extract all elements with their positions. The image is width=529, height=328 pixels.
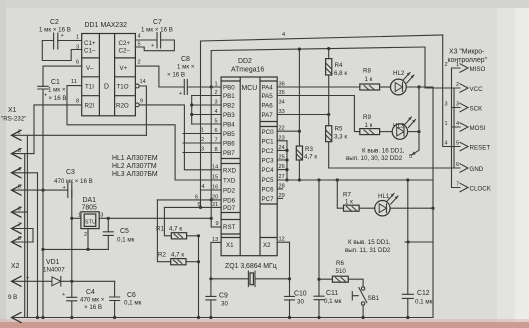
wire X1 pin13: [211, 242, 221, 278]
svg-text:К выв. 16 DD1,: К выв. 16 DD1,: [362, 148, 405, 155]
svg-text:× 16 В: × 16 В: [49, 95, 67, 102]
svg-text:К выв. 15 DD1,: К выв. 15 DD1,: [348, 239, 391, 246]
R7 drop wire: [337, 180, 343, 208]
connector X3 pin 6 GND: [456, 162, 484, 173]
svg-text:C1+: C1+: [84, 40, 96, 47]
connector X1 pin 3: [12, 148, 35, 159]
wire C1 down to ground: [42, 89, 44, 318]
svg-text:DD2: DD2: [238, 58, 252, 65]
svg-text:DA1: DA1: [83, 197, 97, 204]
svg-text:PC5: PC5: [262, 177, 275, 184]
svg-text:PD2: PD2: [223, 188, 236, 195]
svg-text:7805: 7805: [82, 205, 97, 212]
svg-text:2: 2: [84, 232, 87, 238]
svg-text:C2: C2: [50, 19, 59, 26]
svg-text:R2O: R2O: [116, 103, 129, 110]
LED HL3: [380, 117, 416, 139]
svg-text:R3: R3: [305, 146, 313, 153]
PD2 stub net 4: [201, 189, 222, 191]
wire PC5 net to R6: [319, 180, 332, 279]
X3 bus verticals: [452, 68, 455, 188]
svg-text:X2: X2: [11, 263, 20, 270]
PC0 wire: [277, 130, 299, 132]
LED HL1: [359, 193, 398, 216]
svg-text:PB3: PB3: [223, 112, 235, 119]
resistor R1: [156, 207, 199, 239]
svg-text:R8: R8: [363, 68, 371, 75]
svg-text:HL2: HL2: [393, 70, 405, 77]
+5V arrow net: [412, 87, 420, 155]
svg-text:30: 30: [221, 301, 228, 308]
svg-text:CLOCK: CLOCK: [470, 186, 492, 193]
resistor R2: [157, 200, 198, 265]
PD6 wire: [157, 199, 221, 201]
svg-text:C12: C12: [417, 290, 430, 297]
capacitor C12: [402, 180, 432, 318]
svg-text:"RS-232": "RS-232": [1, 116, 26, 123]
connector X1 pin 6: [12, 206, 28, 217]
svg-text:C2+: C2+: [119, 40, 131, 47]
svg-text:PB7: PB7: [223, 150, 235, 157]
HL type list: [112, 155, 158, 178]
connector X3 pin 7 CLOCK: [456, 182, 492, 193]
svg-text:1: 1: [456, 62, 459, 68]
svg-text:14: 14: [140, 79, 146, 85]
svg-text:3: 3: [445, 102, 448, 108]
svg-text:+: +: [26, 275, 29, 281]
crystal ZQ1: [211, 263, 290, 287]
net 4 vertical and top wire: [201, 35, 443, 207]
wire R2I to X1 pin3: [34, 105, 82, 154]
PC5 net wire: [277, 179, 433, 181]
svg-text:9 В: 9 В: [8, 294, 17, 301]
svg-text:4,7 к: 4,7 к: [169, 226, 182, 233]
capacitor C10: [285, 279, 307, 318]
svg-text:4: 4: [282, 32, 285, 38]
svg-text:4,7 к: 4,7 к: [304, 154, 317, 161]
svg-text:+: +: [63, 185, 66, 191]
svg-text:+: +: [151, 43, 154, 49]
svg-text:3,3 к: 3,3 к: [334, 134, 347, 141]
GND vertical right: [432, 87, 434, 318]
node C8/+5: [210, 85, 213, 88]
svg-text:C6: C6: [127, 292, 136, 299]
svg-text:X2: X2: [263, 242, 271, 249]
capacitor C5: [103, 218, 134, 249]
connector X1 pin 8: [12, 236, 34, 247]
capacitor C6: [110, 281, 142, 317]
capacitor C8: [167, 56, 195, 97]
svg-text:R6: R6: [336, 260, 344, 267]
svg-text:GND: GND: [470, 166, 484, 173]
svg-text:3: 3: [456, 102, 459, 108]
svg-text:+: +: [62, 292, 65, 298]
svg-text:9: 9: [216, 221, 219, 227]
svg-text:1: 1: [201, 128, 204, 134]
svg-text:PB5: PB5: [223, 131, 235, 138]
svg-text:470 мк ×: 470 мк ×: [80, 297, 105, 304]
svg-text:PA7: PA7: [262, 112, 274, 119]
svg-text:T1I: T1I: [85, 84, 94, 91]
svg-text:2: 2: [201, 137, 204, 143]
svg-text:PB2: PB2: [223, 103, 235, 110]
svg-text:ZQ1 3,6864 МГц: ZQ1 3,6864 МГц: [225, 263, 277, 270]
svg-text:C3: C3: [66, 169, 75, 176]
capacitor C11: [314, 279, 342, 317]
svg-text:PC1: PC1: [262, 139, 275, 146]
ground rail: [12, 317, 434, 319]
svg-text:PA5: PA5: [262, 93, 274, 100]
DD2 right pin numbers: [279, 82, 285, 243]
svg-text:HL3 АЛ307БМ: HL3 АЛ307БМ: [112, 171, 158, 178]
X3 stubs: [452, 68, 457, 188]
svg-text:PA6: PA6: [262, 103, 274, 110]
svg-text:X1: X1: [226, 242, 234, 249]
svg-text:8: 8: [18, 236, 21, 242]
pin4 drop wire: [37, 173, 39, 318]
connector X3 pin 2 VCC: [456, 82, 483, 93]
svg-text:1 к: 1 к: [365, 76, 373, 83]
svg-text:5: 5: [409, 154, 412, 160]
svg-text:C1: C1: [51, 79, 60, 86]
svg-text:15: 15: [212, 175, 218, 181]
+5V vertical and inner top wire: [211, 47, 425, 227]
svg-text:3: 3: [100, 213, 103, 219]
svg-text:× 16 В: × 16 В: [84, 304, 102, 311]
connector X3 pin 1 MISO: [456, 62, 486, 73]
wire C3 to DA1 input: [71, 190, 73, 281]
svg-text:R2I: R2I: [85, 103, 95, 110]
wire C8 to PB0: [187, 86, 221, 88]
ground wire y249: [43, 248, 108, 250]
DD2 right port labels: [262, 85, 275, 250]
svg-text:4,7 к: 4,7 к: [171, 252, 184, 259]
svg-text:27: 27: [279, 174, 285, 180]
svg-text:STU: STU: [85, 220, 96, 226]
svg-text:SCK: SCK: [470, 106, 484, 113]
svg-text:X3 "Микро-: X3 "Микро-: [449, 49, 484, 56]
PC1-PC4 tie bus: [277, 141, 287, 170]
capacitor C4: [62, 281, 105, 317]
svg-text:5: 5: [138, 42, 141, 48]
svg-text:6: 6: [18, 206, 21, 212]
svg-text:R2: R2: [158, 252, 166, 259]
resistor R4: [326, 49, 348, 115]
svg-text:SB1: SB1: [368, 295, 380, 302]
svg-text:вып. 10, 30, 32 DD2: вып. 10, 30, 32 DD2: [346, 155, 403, 162]
svg-text:4: 4: [202, 184, 205, 190]
svg-text:34: 34: [279, 100, 285, 106]
PD7 wire: [164, 206, 221, 208]
wire RST: [211, 226, 221, 228]
capacitor C9: [206, 279, 229, 318]
svg-text:HL2 АЛ307ГМ: HL2 АЛ307ГМ: [112, 163, 157, 170]
svg-text:6: 6: [76, 60, 79, 66]
svg-text:R5: R5: [335, 126, 343, 133]
capacitor C7: [135, 19, 174, 51]
connector X2 pin 1: [12, 276, 22, 286]
svg-text:2: 2: [138, 60, 141, 66]
wire T1I to TXD: [67, 86, 221, 180]
svg-text:4: 4: [138, 34, 141, 40]
svg-text:MCU: MCU: [242, 85, 258, 92]
svg-text:PC4: PC4: [262, 167, 275, 174]
svg-text:MOSI: MOSI: [470, 125, 486, 132]
svg-text:PC0: PC0: [262, 129, 275, 136]
svg-text:VCC: VCC: [470, 86, 484, 93]
PA7 wire: [277, 114, 329, 116]
svg-text:1: 1: [78, 213, 81, 219]
DD2 left pin numbers: [212, 82, 218, 243]
PA5 wire to R9: [277, 96, 360, 132]
R1/R2 common wire to ground: [198, 236, 200, 318]
svg-text:C11: C11: [326, 290, 338, 297]
svg-text:PC2: PC2: [262, 148, 275, 155]
resistor R7: [343, 192, 359, 212]
svg-text:V–: V–: [86, 65, 94, 72]
svg-text:× 16 В: × 16 В: [167, 72, 185, 79]
pin T1O circle and wire to X1 pin2: [135, 84, 139, 88]
svg-text:R4: R4: [335, 62, 343, 69]
svg-text:14: 14: [212, 164, 218, 170]
resistor R6: [332, 260, 348, 282]
svg-text:1 к: 1 к: [365, 122, 373, 129]
connector X2 pin 2: [12, 313, 22, 323]
svg-text:30: 30: [297, 299, 304, 306]
capacitor C2: [39, 19, 82, 61]
svg-text:HL1 АЛ307ЕМ: HL1 АЛ307ЕМ: [112, 155, 158, 162]
svg-text:1: 1: [76, 35, 79, 41]
svg-text:C8: C8: [181, 56, 190, 63]
svg-text:TXD: TXD: [223, 178, 236, 185]
svg-text:C7: C7: [153, 19, 162, 26]
svg-text:7: 7: [18, 223, 21, 229]
resistor R9: [360, 114, 380, 135]
svg-text:ATmega16: ATmega16: [231, 67, 264, 74]
svg-text:11: 11: [71, 79, 77, 85]
svg-text:V+: V+: [120, 65, 128, 72]
connector X1 pin 7: [12, 223, 34, 234]
connector X1 pin 4: [12, 167, 38, 178]
RESET wire from top: [443, 35, 457, 147]
svg-text:PC3: PC3: [262, 158, 275, 165]
svg-text:C9: C9: [219, 293, 228, 300]
svg-text:510: 510: [336, 268, 347, 275]
IC DD1 MAX232: [82, 22, 136, 116]
VCC wire: [425, 47, 457, 88]
svg-text:MAX232: MAX232: [101, 22, 128, 29]
svg-text:0,1 мк: 0,1 мк: [117, 237, 135, 244]
svg-text:1 мк × 16 В: 1 мк × 16 В: [39, 27, 71, 34]
DA1 pin2 to ground wire: [87, 229, 89, 250]
svg-text:5: 5: [18, 184, 21, 190]
PC6 PC7 stubs: [277, 189, 282, 199]
svg-text:8: 8: [76, 99, 79, 105]
svg-text:C4: C4: [86, 289, 95, 296]
svg-text:0,1 мк: 0,1 мк: [324, 298, 342, 305]
svg-text:RXD: RXD: [223, 167, 237, 174]
svg-text:+: +: [44, 93, 47, 99]
svg-text:PB4: PB4: [223, 122, 235, 129]
resistor R3: [296, 49, 317, 180]
svg-text:1 мк × 16 В: 1 мк × 16 В: [141, 27, 173, 34]
svg-text:MISO: MISO: [470, 66, 486, 73]
GND wire to X3: [329, 167, 457, 169]
svg-text:C1–: C1–: [84, 48, 96, 55]
svg-text:1 мк ×: 1 мк ×: [48, 87, 66, 94]
pin7-8 bracket: [32, 229, 34, 243]
wire V+ pin2 to C8: [135, 66, 184, 87]
svg-text:9: 9: [140, 99, 143, 105]
capacitor C1: [38, 79, 67, 102]
svg-text:PC7: PC7: [262, 196, 275, 203]
annotation to GND pins: [405, 241, 433, 243]
svg-text:4: 4: [445, 141, 448, 147]
svg-text:0,1 мк: 0,1 мк: [415, 299, 433, 306]
svg-text:+: +: [61, 33, 64, 39]
connector X3 pin 3 SCK: [456, 102, 483, 113]
svg-text:5: 5: [456, 141, 459, 147]
regulator DA1 7805: [78, 197, 104, 238]
svg-text:6: 6: [456, 162, 459, 168]
svg-text:PB0: PB0: [223, 85, 235, 92]
svg-text:T1O: T1O: [117, 84, 129, 91]
svg-text:D: D: [104, 84, 109, 91]
resistor R8: [360, 68, 380, 91]
LED HL2: [380, 70, 414, 95]
svg-text:3: 3: [18, 148, 21, 154]
svg-text:2: 2: [445, 62, 448, 68]
X1 ground bus wires: [24, 154, 26, 318]
svg-text:R7: R7: [343, 192, 351, 199]
svg-text:1: 1: [215, 82, 218, 88]
DD2 left port labels: [223, 85, 237, 250]
svg-text:1 к: 1 к: [345, 199, 353, 206]
svg-text:4: 4: [18, 167, 21, 173]
+5V wire from DA1: [99, 217, 211, 219]
PB1-PB4 tie bus: [191, 96, 193, 125]
svg-text:вып. 11, 31 DD2: вып. 11, 31 DD2: [345, 247, 391, 254]
svg-text:PA4: PA4: [262, 85, 274, 92]
svg-text:VD1: VD1: [46, 259, 60, 266]
diode VD1 1N4007: [12, 259, 115, 286]
svg-text:RST: RST: [223, 224, 236, 231]
svg-text:1 мк ×: 1 мк ×: [177, 64, 195, 71]
svg-text:+: +: [179, 91, 182, 97]
svg-text:R9: R9: [363, 114, 371, 121]
svg-text:PD6: PD6: [223, 197, 236, 204]
svg-text:470 мк × 16 В: 470 мк × 16 В: [54, 178, 93, 185]
svg-text:RESET: RESET: [470, 145, 491, 152]
connector X1 pin 5: [12, 184, 68, 195]
svg-text:PC6: PC6: [262, 187, 275, 194]
wire V- pin6 to C1: [43, 66, 82, 86]
svg-text:PD7: PD7: [223, 205, 236, 212]
svg-text:2: 2: [456, 82, 459, 88]
svg-text:DD1: DD1: [85, 22, 99, 29]
svg-text:C5: C5: [120, 228, 129, 235]
svg-text:X1: X1: [8, 107, 17, 114]
connector X3 pin 5 RESET: [456, 141, 490, 152]
svg-text:1: 1: [445, 121, 448, 127]
svg-text:PB6: PB6: [223, 141, 235, 148]
svg-text:0,1 мк: 0,1 мк: [124, 300, 142, 307]
connector X1 pin 2: [12, 130, 147, 141]
svg-text:C2–: C2–: [119, 48, 131, 55]
svg-text:2: 2: [18, 130, 21, 136]
PA4 wire: [277, 86, 360, 88]
svg-text:3: 3: [201, 147, 204, 153]
svg-text:4: 4: [456, 121, 459, 127]
svg-text:6,8 к: 6,8 к: [334, 70, 347, 77]
svg-text:PB1: PB1: [223, 93, 235, 100]
svg-text:7: 7: [456, 182, 459, 188]
PB5 PB6 PB7 stubs with net labels 1,2,3: [183, 134, 221, 153]
svg-text:HL3: HL3: [393, 123, 405, 130]
wire X2 pin12: [277, 242, 289, 279]
button SB1: [348, 279, 379, 317]
resistor R5: [326, 115, 348, 169]
connector X3 pin 4 MOSI: [456, 121, 486, 132]
svg-text:3: 3: [76, 45, 79, 51]
svg-text:контроллер": контроллер": [448, 57, 488, 64]
svg-text:HL1: HL1: [378, 193, 390, 200]
svg-text:1N4007: 1N4007: [43, 267, 65, 274]
svg-text:C10: C10: [294, 291, 307, 298]
pin R2O circle and wire to RXD: [135, 103, 139, 107]
capacitor C3: [54, 169, 93, 198]
